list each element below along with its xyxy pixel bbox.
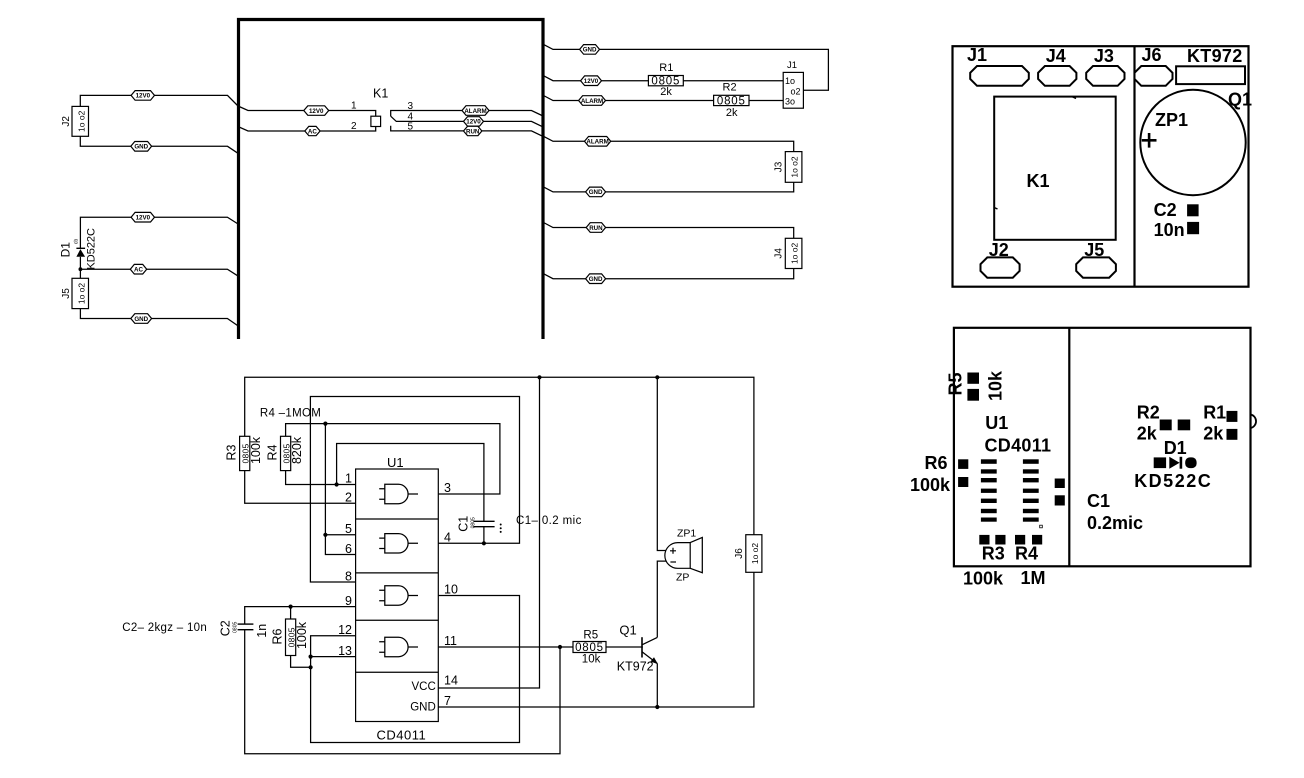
pad R4-2 (1032, 535, 1042, 545)
wire GND to J4 pin 2 (544, 269, 794, 279)
svg-text:2k: 2k (660, 86, 672, 98)
svg-text:J3: J3 (773, 161, 784, 172)
svg-text:U1: U1 (387, 455, 404, 470)
svg-text:100k: 100k (910, 475, 951, 495)
connector J5 (72, 278, 89, 308)
node R6/pin13 junction (309, 665, 313, 669)
IC U1 footprint column B (1023, 459, 1039, 521)
wire AC from D1 anode (80, 269, 237, 276)
wire pin 14 to VCC rail (438, 377, 539, 688)
svg-text:12V0: 12V0 (136, 93, 151, 100)
capacitor C1 (473, 520, 494, 522)
buzzer ZP1 horn (690, 537, 702, 572)
wire U1 pin 13 (311, 656, 356, 658)
svg-text:100k: 100k (963, 569, 1004, 589)
pad D1-1 (1154, 457, 1166, 468)
svg-text:8: 8 (345, 569, 352, 583)
svg-text:ALARM: ALARM (581, 98, 603, 105)
wire 12V0 (D1 cathode) (80, 217, 237, 248)
pad J5 (1076, 257, 1116, 277)
svg-text:C2– 2kgz – 10n: C2– 2kgz – 10n (122, 622, 207, 634)
svg-text:3: 3 (444, 481, 451, 495)
wire U1 pin 3 loop to R4 top (286, 424, 500, 494)
pad R2-1 (1160, 420, 1172, 431)
svg-text:5: 5 (345, 522, 352, 536)
svg-text:12V0: 12V0 (584, 78, 599, 85)
svg-text:J1: J1 (967, 45, 987, 65)
svg-text:CD4011: CD4011 (985, 436, 1052, 456)
svg-text:2: 2 (351, 121, 357, 132)
wire C2 bottom to U1 pin 11 (245, 630, 560, 754)
wire pin1 to C1 top (337, 444, 484, 522)
svg-text:GND: GND (134, 316, 148, 323)
resistor R3 100k (240, 436, 250, 470)
svg-text:GND: GND (589, 276, 603, 283)
transistor Q1 KT972 (641, 637, 643, 657)
wire VCC top rail (245, 377, 754, 534)
svg-text:J3: J3 (1094, 46, 1114, 66)
wire GND to J1 pin 2 (544, 44, 829, 90)
wire R3 bottom to U1 pin 2 (245, 471, 356, 504)
IC U1 footprint column A (981, 459, 997, 521)
wire Q1 emitter to gnd rail (656, 664, 658, 708)
pad C2-1 (1187, 204, 1199, 216)
connector J6 (746, 535, 762, 573)
relay footprint K1 (994, 97, 1115, 240)
pad R4-1 (1015, 535, 1025, 545)
wire R2 to J1 pin 3 (749, 100, 783, 102)
svg-text:GND: GND (583, 47, 597, 54)
svg-text:J2: J2 (61, 116, 72, 127)
svg-text:C2: C2 (219, 620, 233, 636)
wire U1 pin 12 down to pin 10 loop (311, 596, 520, 743)
svg-text:1o o2: 1o o2 (790, 242, 800, 264)
svg-text:1o o2: 1o o2 (76, 283, 86, 305)
wire 12V0 to R1 (544, 76, 649, 81)
resistor R1 2k (648, 76, 683, 86)
svg-text:J2: J2 (989, 240, 1009, 260)
wire R6 bottom to pins 12/13 (291, 656, 311, 668)
svg-text:D1: D1 (1164, 438, 1187, 458)
net label 12V0 (J2) (131, 91, 154, 101)
PCB divider line (1068, 328, 1070, 567)
wire RUN to J4 pin 1 (544, 223, 794, 239)
svg-text:820k: 820k (290, 436, 304, 464)
svg-text:R5: R5 (946, 372, 966, 395)
relay contact pin 5 (391, 126, 543, 137)
svg-text:ZP1: ZP1 (1155, 110, 1188, 130)
wire AC to K1 pin 2 (238, 127, 376, 132)
svg-text:J4: J4 (773, 248, 784, 259)
svg-text:10k: 10k (986, 370, 1006, 401)
wire R1 to J1 pin 1 (683, 80, 783, 82)
net label 12V0 (D1) (131, 212, 154, 222)
svg-text:13: 13 (338, 644, 352, 658)
net label RUN (contact) (464, 126, 482, 135)
wire R4 bottom to U1 pin 1 (286, 471, 356, 485)
svg-text:1o o2: 1o o2 (750, 543, 760, 565)
resistor R5 10k (573, 642, 606, 653)
net label GND (J4) (586, 274, 606, 284)
wire pin 7 ground rail to J6 (438, 572, 754, 707)
svg-text:2: 2 (345, 491, 352, 505)
pad edge arc (1251, 415, 1256, 429)
ZP1 plus terminal (670, 548, 676, 554)
svg-text:R1: R1 (659, 62, 673, 74)
svg-text:o2: o2 (791, 87, 801, 97)
wire Q1 collector to ZP1 (657, 561, 666, 637)
wire J2 pin1 to 12V0 (80, 95, 238, 106)
svg-text:KT972: KT972 (1187, 46, 1243, 66)
node pin11/R5 (558, 645, 562, 649)
wire 12V0 to K1 pin 1 (238, 106, 376, 116)
net label ALARM (R2) (579, 96, 606, 106)
net label GND (J2) (131, 142, 152, 152)
PCB board outline (top) (953, 46, 1249, 287)
pad C2-2 (1187, 222, 1199, 234)
net label 12V0 (coil) (304, 106, 329, 116)
wire R5 to Q1 base (606, 646, 643, 648)
wire U1 pin 9 to C2 (245, 607, 356, 624)
svg-text:U1: U1 (985, 413, 1008, 433)
svg-text:0.2mic: 0.2mic (1087, 513, 1143, 533)
tiny via square (1040, 525, 1043, 528)
wire GND to J3 pin 2 (544, 182, 794, 192)
svg-text:ALARM: ALARM (464, 108, 486, 115)
pad R5-2 (967, 389, 979, 401)
svg-text:J5: J5 (61, 288, 72, 299)
wire pin5/pin6 branch (325, 424, 355, 555)
gate U1C (379, 586, 418, 605)
pad R1-2 (1227, 429, 1238, 440)
PCB board outline (bottom) (954, 328, 1251, 567)
net label RUN (J4) (586, 223, 605, 233)
svg-text:CD4011: CD4011 (377, 728, 427, 743)
net label ALARM (contact) (462, 106, 489, 116)
wire J5 pin2 to GND (80, 309, 237, 326)
pad J1 (970, 66, 1029, 86)
svg-text:100k: 100k (295, 621, 309, 649)
svg-text:2k: 2k (726, 107, 738, 119)
node pin5 (323, 533, 327, 537)
node R6 top (289, 605, 293, 609)
svg-text:C1: C1 (457, 516, 471, 532)
svg-text:RUN: RUN (589, 225, 603, 232)
svg-text:GND: GND (589, 189, 603, 196)
svg-text:AC: AC (308, 128, 317, 135)
gate U1B (379, 534, 418, 553)
svg-text:0805: 0805 (717, 95, 746, 107)
IC U1 CD4011 body (356, 469, 439, 722)
pad R3-1 (979, 535, 989, 545)
node pin13 (309, 655, 313, 659)
svg-text:KD522C: KD522C (85, 228, 97, 270)
pad KT972 (1176, 66, 1245, 84)
node VCC/ZP1 (655, 375, 659, 379)
svg-text:R1: R1 (1203, 403, 1226, 423)
svg-text:cb: cb (73, 239, 79, 245)
node pin5 branch on pin3 loop (323, 422, 327, 426)
svg-text:100k: 100k (249, 436, 263, 464)
svg-text:1M: 1M (1021, 568, 1046, 588)
pad J6 (1135, 66, 1173, 86)
wire J2 pin2 to GND (80, 136, 238, 153)
junction node D1/J5/AC (79, 267, 83, 271)
net label 12V0 (contact) (464, 117, 484, 126)
svg-text:KT972: KT972 (617, 660, 654, 674)
pad R6-2 (958, 477, 968, 487)
net label ALARM (J3) (585, 137, 611, 147)
svg-text:ALARM: ALARM (586, 139, 608, 146)
wire pin 11 to R5 (438, 646, 573, 648)
svg-text:1n: 1n (255, 624, 269, 638)
svg-text:4: 4 (444, 530, 451, 544)
svg-text:D1: D1 (59, 242, 73, 258)
svg-text:GND: GND (410, 702, 436, 714)
svg-text:1o: 1o (785, 76, 795, 86)
ZP1 minus terminal (670, 561, 676, 563)
svg-text:3: 3 (408, 101, 414, 112)
pad R3-2 (995, 535, 1005, 545)
connector J3 (785, 152, 802, 183)
svg-text:ZP1: ZP1 (677, 528, 696, 540)
svg-text:J6: J6 (1142, 45, 1162, 65)
node C1 branch on pin1 wire (335, 482, 339, 486)
svg-text:KD522C: KD522C (1134, 471, 1212, 491)
diode D1 KD522C (76, 247, 85, 249)
net label AC (D1) (130, 264, 146, 274)
svg-text:VCC: VCC (412, 681, 436, 693)
svg-text:14: 14 (444, 673, 458, 687)
buzzer ZP1 body (665, 543, 690, 569)
wire J5 pin1 (79, 269, 81, 278)
buzzer footprint ZP1 circle (1140, 90, 1245, 195)
svg-text:R2: R2 (723, 82, 737, 94)
svg-text:0805: 0805 (470, 517, 476, 528)
net label GND (J5) (131, 314, 152, 324)
wire VCC rail to ZP1 plus (657, 377, 666, 550)
svg-text:11: 11 (444, 634, 457, 648)
svg-text:1o o2: 1o o2 (790, 156, 800, 178)
pad J4 (1038, 66, 1076, 86)
svg-text:R6: R6 (924, 453, 947, 473)
wire ALARM to J3 pin 1 (544, 136, 794, 151)
svg-text:R3: R3 (224, 444, 238, 460)
svg-text:12V0: 12V0 (136, 215, 151, 222)
svg-text:R2: R2 (1137, 403, 1160, 423)
svg-text:J5: J5 (1084, 240, 1104, 260)
sheet block (open-bottom thick box) (239, 20, 544, 340)
pad R6-1 (958, 459, 968, 469)
pad R2-2 (1178, 420, 1191, 431)
svg-text:0805: 0805 (575, 642, 604, 654)
relay contact arm and pin 4 (391, 116, 543, 127)
capacitor C2 1n (238, 623, 254, 625)
pad R5-1 (967, 373, 979, 384)
connector J4 (785, 238, 802, 268)
svg-text:10k: 10k (582, 654, 601, 666)
svg-text:1o o2: 1o o2 (76, 110, 86, 132)
svg-text:6: 6 (345, 542, 352, 556)
svg-text:AC: AC (134, 267, 143, 274)
svg-text:K1: K1 (373, 87, 388, 101)
gate U1A (379, 484, 418, 503)
svg-text:12: 12 (338, 623, 352, 637)
pad D1-2 (round) (1185, 457, 1196, 468)
svg-text:1: 1 (345, 472, 352, 486)
net label AC (coil) (305, 126, 320, 135)
svg-text:RUN: RUN (466, 128, 480, 135)
svg-text:10: 10 (444, 583, 458, 597)
relay contact common pin 3 (391, 111, 543, 117)
net label GND (J1) (580, 45, 600, 55)
relay coil K1 square (371, 116, 381, 126)
svg-text:5: 5 (408, 121, 414, 132)
svg-text:J6: J6 (734, 548, 745, 559)
svg-text:Q1: Q1 (619, 623, 636, 638)
svg-text:R4: R4 (1015, 544, 1038, 564)
svg-text:J1: J1 (787, 60, 797, 71)
ZP1 plus mark (1142, 133, 1157, 148)
svg-text:K1: K1 (1027, 171, 1050, 191)
net label GND (J3) (586, 187, 606, 197)
svg-text:C1– 0.2 mic: C1– 0.2 mic (516, 515, 582, 527)
svg-text:9: 9 (345, 594, 352, 608)
gate U1D (379, 637, 418, 656)
svg-text:GND: GND (134, 144, 148, 151)
pad side-2 (1055, 495, 1065, 505)
svg-text:3o: 3o (785, 96, 795, 106)
svg-text:C1: C1 (1087, 491, 1110, 511)
wire U1 pin 5 (325, 534, 355, 536)
PCB divider line (1133, 46, 1135, 287)
K1 pin1 nub marks (1072, 97, 1076, 99)
connector J2 (72, 106, 89, 136)
svg-text:1: 1 (351, 100, 357, 111)
svg-text:7: 7 (444, 694, 451, 708)
resistor R6 100k (290, 607, 292, 619)
pad R1-1 (1227, 411, 1238, 422)
svg-text:R6: R6 (270, 628, 284, 644)
svg-text:C2: C2 (1154, 200, 1177, 220)
resistor R2 2k (714, 95, 749, 105)
svg-text:ZP: ZP (676, 572, 689, 584)
connector J1 (783, 72, 803, 108)
svg-text:2k: 2k (1137, 424, 1158, 444)
svg-text:10n: 10n (1154, 220, 1185, 240)
node VCC/pin14 (537, 375, 541, 379)
wire ALARM to R2 (544, 96, 714, 101)
svg-text:0805: 0805 (232, 622, 238, 633)
svg-text:J4: J4 (1046, 46, 1066, 66)
diode D1 symbol (1169, 457, 1179, 469)
node Q1 emitter on gnd rail (655, 705, 659, 709)
pad side-1 (1055, 479, 1065, 489)
resistor R4 820k (281, 436, 291, 470)
pad J3 (1086, 66, 1124, 86)
svg-text:R4: R4 (265, 444, 279, 460)
svg-text:R3: R3 (982, 544, 1005, 564)
pad J2 (981, 257, 1020, 277)
net label 12V0 (R1) (581, 76, 602, 86)
wire U1 pin 8 loop to pin 4 (310, 397, 519, 583)
svg-text:12V0: 12V0 (466, 119, 481, 126)
svg-text:R4 –1MOM: R4 –1MOM (260, 408, 321, 420)
node C1 on pin4 wire (482, 541, 486, 545)
svg-text:2k: 2k (1203, 424, 1224, 444)
svg-text:R5: R5 (583, 629, 598, 641)
svg-text:12V0: 12V0 (309, 108, 324, 115)
